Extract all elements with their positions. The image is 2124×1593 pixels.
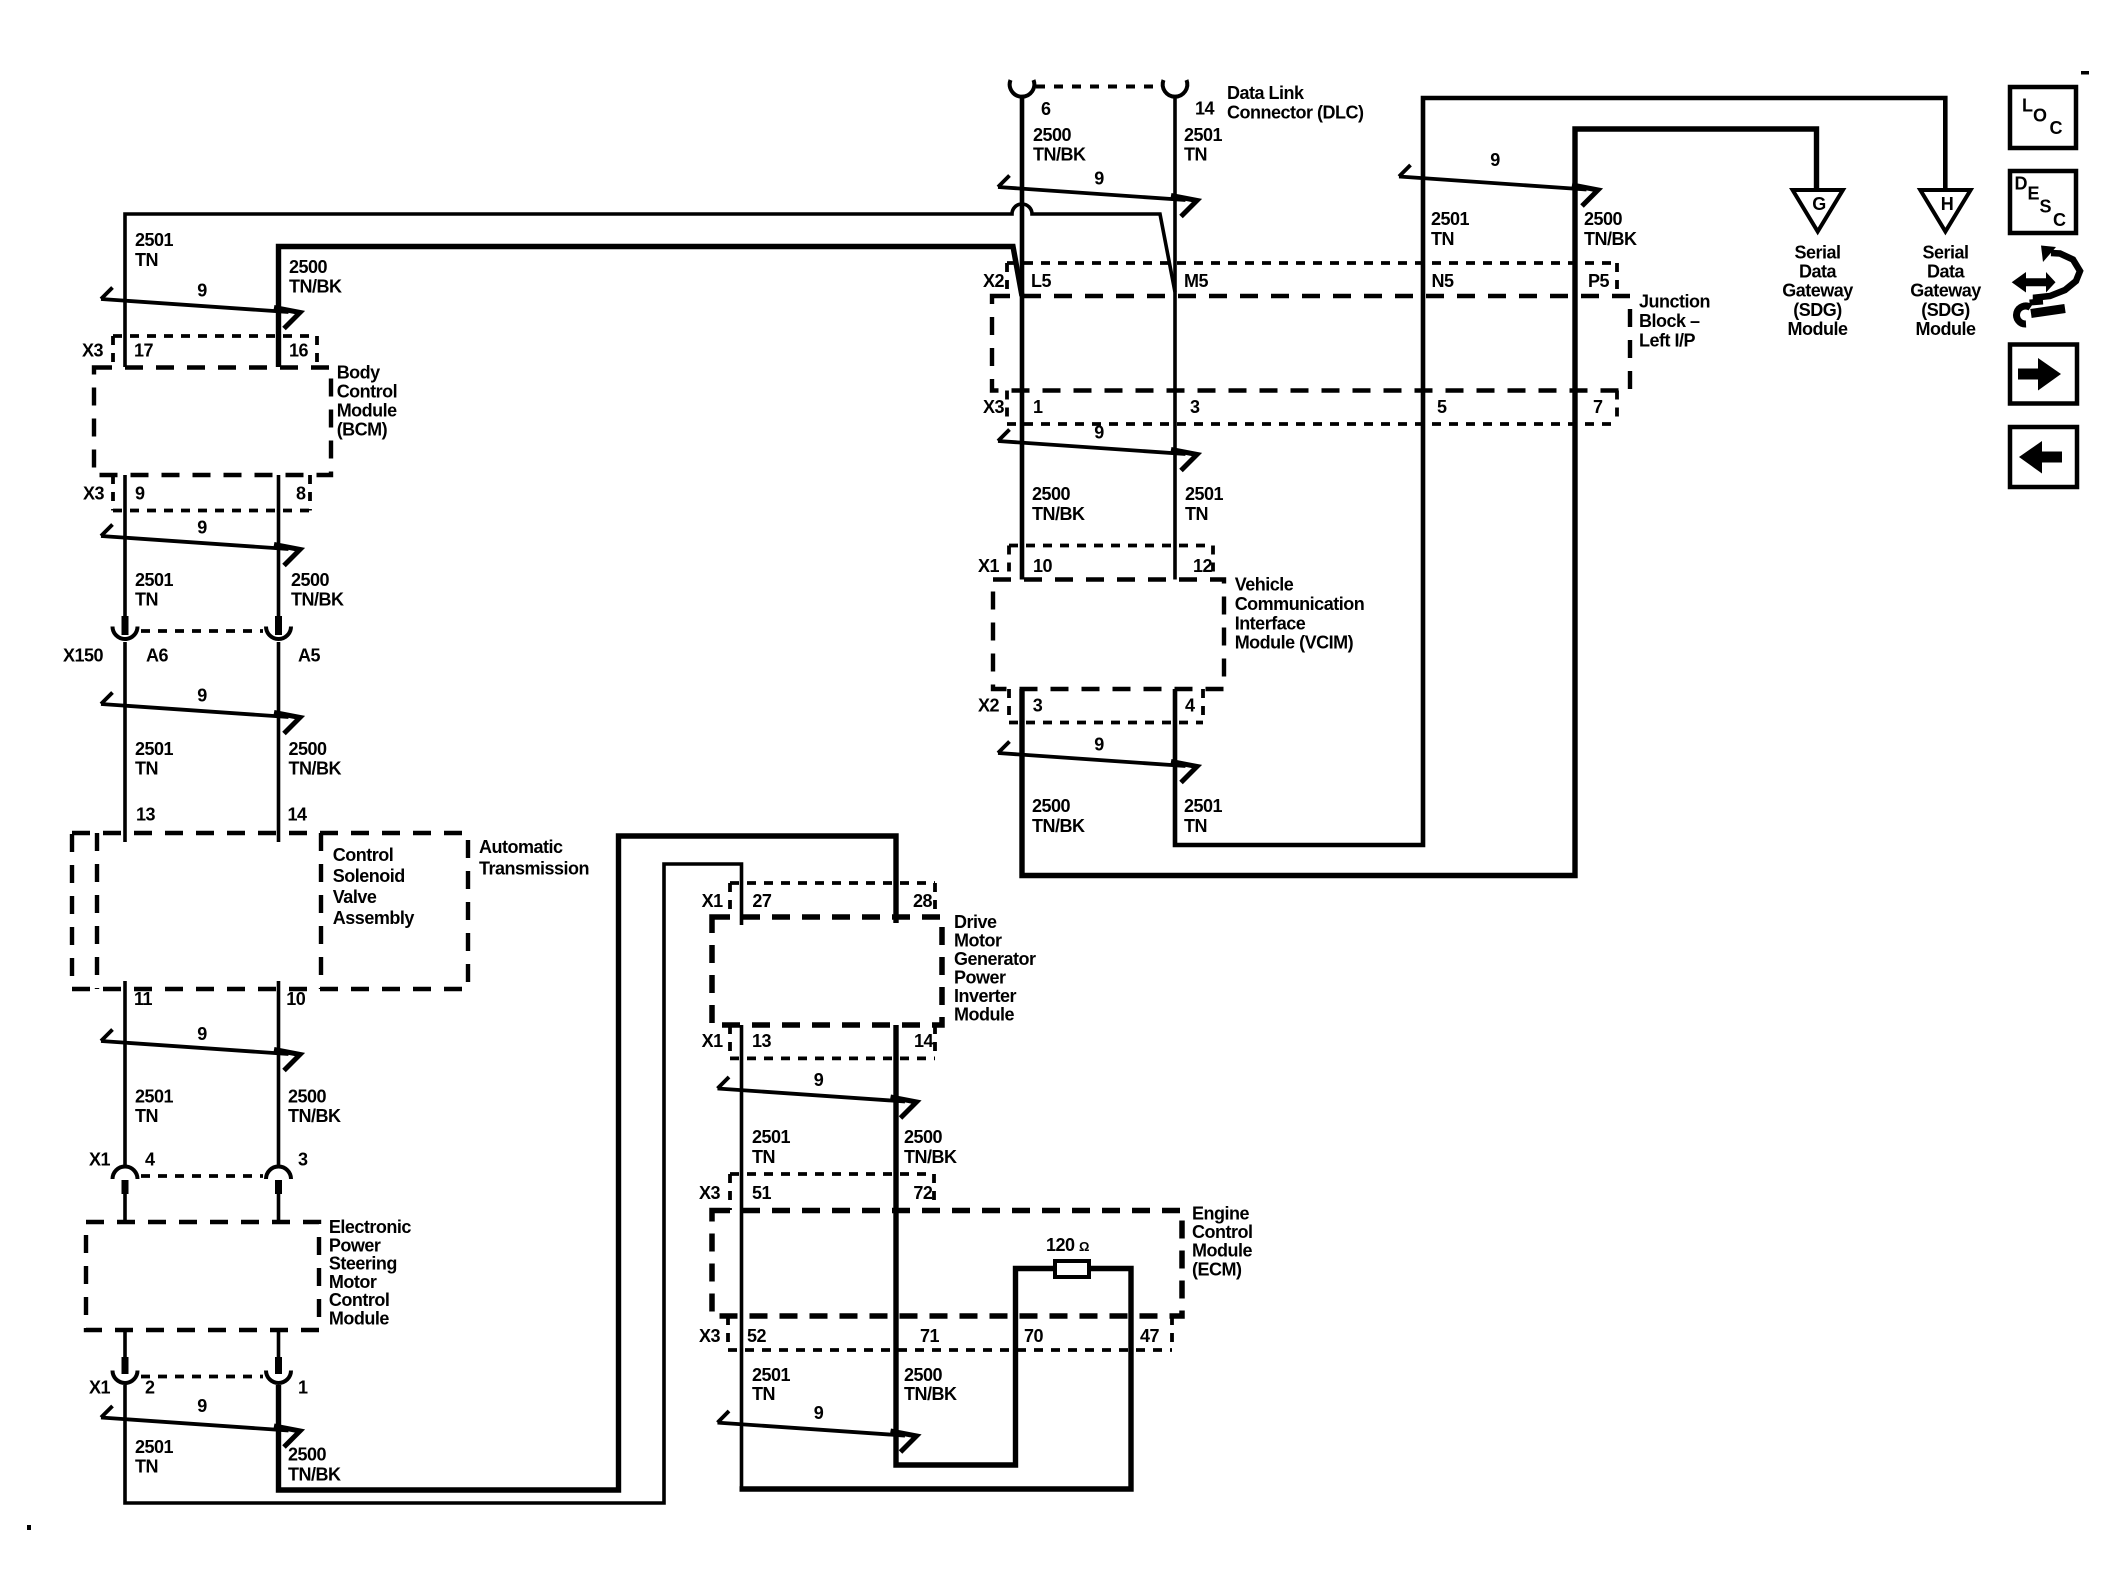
svg-text:TN: TN <box>1431 229 1454 249</box>
wire VCIM X2-3 up junction P5 to SDG G triangle (2500 TN/BK) <box>1022 129 1817 876</box>
svg-text:X1: X1 <box>702 1031 724 1051</box>
svg-text:Valve: Valve <box>333 887 377 907</box>
connector Drive Motor X1 row pins 13/14 <box>730 1025 935 1058</box>
svg-text:2501: 2501 <box>135 230 174 250</box>
wire X150 A5 to solenoid pin 14 <box>277 642 281 842</box>
wire BCM X3-8 to X150 A5 <box>277 475 281 616</box>
icon wiring repair (double arrow, curved arrow, wrench) <box>2012 246 2080 325</box>
svg-text:14: 14 <box>914 1031 934 1051</box>
svg-text:H: H <box>1941 194 1954 214</box>
svg-text:TN/BK: TN/BK <box>1033 145 1086 165</box>
svg-text:(SDG): (SDG) <box>1793 300 1842 320</box>
svg-text:9: 9 <box>197 1024 207 1044</box>
svg-text:Interface: Interface <box>1235 614 1306 634</box>
svg-text:(BCM): (BCM) <box>337 420 388 440</box>
svg-text:TN: TN <box>752 1384 775 1404</box>
svg-text:2500: 2500 <box>1033 125 1072 145</box>
svg-text:TN: TN <box>1184 145 1207 165</box>
svg-text:2501: 2501 <box>1184 125 1223 145</box>
svg-text:Junction: Junction <box>1639 292 1710 312</box>
svg-text:Module: Module <box>1788 319 1848 339</box>
connector DLC cup pin 14 <box>1163 80 1188 97</box>
svg-text:4: 4 <box>1185 696 1195 716</box>
svg-text:TN/BK: TN/BK <box>288 1465 341 1485</box>
svg-text:X1: X1 <box>89 1150 111 1170</box>
svg-text:6: 6 <box>1041 99 1051 119</box>
svg-text:2501: 2501 <box>135 1437 174 1457</box>
svg-text:Generator: Generator <box>954 949 1036 969</box>
svg-text:28: 28 <box>913 891 933 911</box>
svg-text:2500: 2500 <box>291 570 330 590</box>
connector DLC dashed line <box>1036 85 1163 89</box>
svg-text:Control: Control <box>333 845 393 865</box>
connector junction block X3 row 1/3/5/7 <box>1007 391 1617 425</box>
svg-text:TN/BK: TN/BK <box>288 1106 341 1126</box>
SDG triangle H <box>1920 190 1970 232</box>
svg-text:TN/BK: TN/BK <box>289 277 342 297</box>
twisted pair symbol 9 below drive module <box>718 1070 917 1118</box>
svg-text:TN/BK: TN/BK <box>289 759 342 779</box>
connector junction block X2 row L5/M5/N5/P5 <box>1007 263 1617 296</box>
svg-text:Inverter: Inverter <box>954 986 1017 1006</box>
svg-text:Communication: Communication <box>1235 594 1365 614</box>
connector BCM X3 row pins 17/16 <box>113 336 317 367</box>
svg-text:O: O <box>2033 106 2047 126</box>
wire VCIM X2-4 up junction N5 to SDG H triangle (2501 TN) <box>1175 98 1945 845</box>
svg-text:51: 51 <box>752 1183 772 1203</box>
svg-text:2500: 2500 <box>289 739 328 759</box>
svg-text:13: 13 <box>752 1031 772 1051</box>
svg-text:9: 9 <box>197 686 207 706</box>
svg-text:9: 9 <box>1094 169 1104 189</box>
connector Drive Motor X3 row pins 51/72 <box>730 1174 934 1210</box>
svg-text:70: 70 <box>1024 1326 1044 1346</box>
module box Engine Control Module (ECM) <box>712 1211 1182 1317</box>
module box Junction Block Left I/P <box>992 296 1630 391</box>
svg-text:11: 11 <box>134 989 153 1009</box>
svg-text:Module: Module <box>329 1309 389 1329</box>
svg-text:G: G <box>1812 194 1826 214</box>
svg-text:L: L <box>2022 96 2033 116</box>
svg-text:Power: Power <box>954 968 1006 988</box>
wire X150 A6 to solenoid pin 13 <box>123 642 127 842</box>
wire EPS X1-4 pin into module <box>123 1193 127 1222</box>
svg-text:Assembly: Assembly <box>333 908 415 928</box>
svg-text:8: 8 <box>296 484 306 504</box>
svg-text:Transmission: Transmission <box>479 859 589 879</box>
svg-text:TN/BK: TN/BK <box>1584 229 1637 249</box>
module box Control Solenoid Valve Assembly (inner dashed edges) <box>97 833 321 989</box>
svg-text:17: 17 <box>134 341 154 361</box>
svg-text:Connector (DLC): Connector (DLC) <box>1227 103 1364 123</box>
icon DESC box <box>2010 171 2076 233</box>
svg-text:2501: 2501 <box>752 1127 791 1147</box>
twisted pair symbol 9 above VCIM <box>998 423 1197 471</box>
svg-text:A6: A6 <box>146 646 168 666</box>
svg-text:X3: X3 <box>699 1183 721 1203</box>
twisted pair symbol 9 below VCIM <box>998 735 1197 783</box>
svg-text:9: 9 <box>1094 423 1104 443</box>
svg-text:A5: A5 <box>298 646 320 666</box>
icon back arrow box <box>2010 427 2077 487</box>
wire EPS module down to X1-2 connector <box>123 1330 127 1358</box>
svg-text:14: 14 <box>288 805 308 825</box>
connector EPS X1 pin 3 (dome and pin) <box>266 1167 291 1180</box>
twisted pair symbol 9 below BCM X3 9/8 <box>101 518 300 566</box>
svg-text:TN: TN <box>1184 816 1207 836</box>
svg-text:14: 14 <box>1195 99 1215 119</box>
module box Electronic Power Steering Motor Control Module <box>86 1222 319 1330</box>
svg-text:(SDG): (SDG) <box>1921 300 1970 320</box>
twisted pair symbol 9 below DLC <box>998 169 1197 217</box>
svg-text:71: 71 <box>920 1326 940 1346</box>
svg-text:TN: TN <box>135 1106 158 1126</box>
connector ECM X3 row pins 52/71/70/47 <box>728 1316 1172 1350</box>
wire DLC pin 6 down to VCIM X1-10 (2500 TN/BK, L5 column) <box>1020 96 1025 580</box>
wire EPS X1-3 pin into module <box>277 1193 281 1222</box>
twisted pair symbol 9 below EPS <box>101 1396 300 1447</box>
svg-text:C: C <box>2053 210 2066 230</box>
svg-text:1: 1 <box>298 1378 308 1398</box>
svg-text:9: 9 <box>197 281 207 301</box>
svg-text:Engine: Engine <box>1192 1203 1249 1223</box>
svg-text:27: 27 <box>752 891 772 911</box>
svg-text:TN: TN <box>135 250 158 270</box>
svg-text:TN/BK: TN/BK <box>904 1147 957 1167</box>
svg-text:L5: L5 <box>1031 271 1051 291</box>
svg-text:2500: 2500 <box>1032 796 1071 816</box>
svg-text:9: 9 <box>1094 735 1104 755</box>
wire 2500 TN/BK from BCM X3-16 to junction L5 <box>279 247 1023 368</box>
twisted pair symbol 9 below ECM <box>718 1403 917 1452</box>
svg-text:Module: Module <box>337 401 397 421</box>
svg-text:47: 47 <box>1140 1326 1160 1346</box>
svg-text:TN/BK: TN/BK <box>904 1384 957 1404</box>
svg-text:10: 10 <box>286 989 306 1009</box>
svg-text:3: 3 <box>1190 397 1200 417</box>
svg-text:12: 12 <box>1193 556 1213 576</box>
svg-text:D: D <box>2015 174 2028 194</box>
svg-text:16: 16 <box>289 341 309 361</box>
svg-text:Block –: Block – <box>1639 311 1700 331</box>
svg-text:Serial: Serial <box>1922 242 1968 262</box>
svg-text:1: 1 <box>1033 397 1043 417</box>
svg-text:TN/BK: TN/BK <box>1032 504 1085 524</box>
wire 2501 TN from Drive Motor X3-51 through ECM X3-52 <box>740 1025 744 1487</box>
twisted pair symbol 9 below solenoid <box>101 1024 300 1071</box>
wire 2500 TN/BK from Drive Motor X3-72 through ECM X3-71, loop to pin 70 <box>896 1025 1055 1465</box>
connector BCM X3 row pins 9/8 <box>113 475 310 511</box>
connector EPS X1 bottom dotted line <box>141 1375 263 1379</box>
svg-text:Power: Power <box>329 1235 381 1255</box>
svg-text:X3: X3 <box>699 1326 721 1346</box>
svg-text:X3: X3 <box>82 341 104 361</box>
svg-text:Control: Control <box>329 1290 389 1310</box>
svg-text:Electronic: Electronic <box>329 1217 412 1237</box>
wire 2501 TN from EPS X1-2 to Drive Motor X1-27 <box>125 864 742 1503</box>
svg-text:2501: 2501 <box>135 739 174 759</box>
module box Automatic Transmission (outer dashed box) <box>72 833 468 989</box>
wire 2500 TN/BK from EPS X1-1 to Drive Motor X1-28 <box>279 836 897 1490</box>
svg-text:TN: TN <box>135 759 158 779</box>
svg-text:Gateway: Gateway <box>1782 281 1853 301</box>
svg-text:2: 2 <box>145 1378 155 1398</box>
connector VCIM X2 row pins 3/4 <box>1009 689 1203 723</box>
module box Body Control Module (BCM) <box>94 368 331 476</box>
wire 2501 TN from BCM X3-17 to junction M5 (with hop over L5 wire) <box>125 204 1175 367</box>
resistor 120 ohm inside ECM <box>1055 1261 1089 1277</box>
svg-text:Automatic: Automatic <box>479 837 563 857</box>
svg-text:X1: X1 <box>702 891 724 911</box>
svg-text:Module: Module <box>1192 1241 1252 1261</box>
svg-text:X3: X3 <box>983 397 1005 417</box>
connector EPS X1 pin 4 (dome and pin) <box>113 1167 138 1180</box>
tiny dot bottom left <box>27 1525 31 1530</box>
svg-text:TN: TN <box>1185 504 1208 524</box>
connector Drive Motor X1 row pins 27/28 <box>730 883 935 917</box>
svg-text:52: 52 <box>747 1326 767 1346</box>
svg-text:Control: Control <box>1192 1222 1252 1242</box>
svg-text:N5: N5 <box>1432 271 1454 291</box>
svg-text:X3: X3 <box>83 484 105 504</box>
module box Drive Motor Generator Power Inverter Module <box>712 917 942 1025</box>
SDG triangle G <box>1793 190 1843 232</box>
svg-text:Body: Body <box>337 363 380 383</box>
svg-text:2501: 2501 <box>1185 484 1224 504</box>
icon LOC box <box>2010 87 2076 148</box>
connector EPS X1 pin 1 (pin and cup) <box>275 1357 282 1374</box>
svg-text:(ECM): (ECM) <box>1192 1259 1242 1279</box>
svg-text:2500: 2500 <box>288 1086 327 1106</box>
wire EPS module down to X1-1 connector <box>277 1330 281 1358</box>
svg-text:2501: 2501 <box>1184 796 1223 816</box>
svg-text:TN: TN <box>752 1147 775 1167</box>
svg-text:Vehicle: Vehicle <box>1235 575 1294 595</box>
svg-text:2501: 2501 <box>135 1086 174 1106</box>
svg-text:Motor: Motor <box>329 1272 377 1292</box>
svg-text:4: 4 <box>145 1150 155 1170</box>
svg-text:C: C <box>2050 118 2063 138</box>
svg-text:Module (VCIM): Module (VCIM) <box>1235 633 1354 653</box>
svg-text:X2: X2 <box>983 271 1005 291</box>
svg-text:2500: 2500 <box>288 1445 327 1465</box>
svg-text:10: 10 <box>1033 556 1053 576</box>
twisted pair symbol 9 at junction N5/P5 <box>1399 150 1598 206</box>
twisted pair symbol 9 below X150 <box>101 686 300 734</box>
svg-text:Motor: Motor <box>954 931 1002 951</box>
svg-text:M5: M5 <box>1184 271 1208 291</box>
svg-text:X1: X1 <box>978 556 1000 576</box>
svg-text:2500: 2500 <box>1032 484 1071 504</box>
svg-text:2501: 2501 <box>135 570 174 590</box>
svg-text:TN: TN <box>135 590 158 610</box>
svg-text:TN: TN <box>135 1457 158 1477</box>
svg-text:2500: 2500 <box>904 1127 943 1147</box>
svg-text:5: 5 <box>1437 397 1447 417</box>
svg-text:Gateway: Gateway <box>1910 281 1981 301</box>
svg-text:X2: X2 <box>978 696 1000 716</box>
module box Vehicle Communication Interface Module (VCIM) <box>993 580 1224 690</box>
svg-text:9: 9 <box>1490 150 1500 170</box>
wire solenoid pin 10 to EPS X1-3 <box>277 981 281 1165</box>
svg-text:Steering: Steering <box>329 1254 397 1274</box>
svg-text:Control: Control <box>337 382 397 402</box>
wire solenoid pin 11 to EPS X1-4 <box>123 981 127 1165</box>
svg-text:9: 9 <box>814 1403 824 1423</box>
svg-text:72: 72 <box>913 1183 933 1203</box>
connector EPS X1 top dotted line <box>141 1174 263 1178</box>
svg-text:7: 7 <box>1593 397 1603 417</box>
svg-text:TN/BK: TN/BK <box>291 590 344 610</box>
svg-text:Drive: Drive <box>954 912 997 932</box>
twisted pair symbol 9 at BCM top <box>101 281 300 329</box>
svg-text:E: E <box>2028 184 2040 204</box>
connector VCIM X1 row pins 10/12 <box>1009 546 1213 580</box>
svg-text:2500: 2500 <box>289 257 328 277</box>
connector DLC cup pin 6 <box>1010 80 1035 97</box>
svg-text:9: 9 <box>135 484 145 504</box>
svg-text:3: 3 <box>298 1150 308 1170</box>
svg-text:Data: Data <box>1927 262 1966 282</box>
tiny dash top right <box>2081 71 2089 75</box>
svg-text:Solenoid: Solenoid <box>333 866 405 886</box>
svg-text:Module: Module <box>954 1005 1014 1025</box>
svg-text:Module: Module <box>1916 319 1976 339</box>
svg-text:2500: 2500 <box>1584 209 1623 229</box>
svg-text:13: 13 <box>136 805 156 825</box>
svg-text:Left I/P: Left I/P <box>1639 331 1695 351</box>
wire BCM X3-9 to X150 A6 <box>123 475 127 616</box>
svg-text:9: 9 <box>197 518 207 538</box>
svg-text:P5: P5 <box>1588 271 1610 291</box>
wire ECM external loop pin 52 to pin 47 <box>740 1269 1132 1490</box>
connector X150 pin A6 (pin and cup) <box>122 616 129 635</box>
svg-text:S: S <box>2040 197 2052 217</box>
svg-text:X1: X1 <box>89 1378 111 1398</box>
connector X150 pin A5 (pin and cup) <box>275 616 282 635</box>
svg-text:2500: 2500 <box>904 1365 943 1385</box>
svg-text:X150: X150 <box>63 646 104 666</box>
svg-text:Data: Data <box>1799 262 1838 282</box>
svg-text:9: 9 <box>814 1070 824 1090</box>
icon forward arrow box <box>2010 345 2077 404</box>
svg-text:Data Link: Data Link <box>1227 83 1305 103</box>
svg-text:2501: 2501 <box>1431 209 1470 229</box>
svg-text:9: 9 <box>197 1396 207 1416</box>
wire DLC pin 14 down to VCIM X1-12 (2501 TN, M5 column) <box>1173 96 1177 580</box>
svg-text:3: 3 <box>1033 696 1043 716</box>
svg-text:2501: 2501 <box>752 1365 791 1385</box>
svg-text:Serial: Serial <box>1794 242 1840 262</box>
connector X150 dotted line <box>141 629 263 633</box>
connector EPS X1 pin 2 (pin and cup) <box>122 1357 129 1374</box>
svg-text:TN/BK: TN/BK <box>1032 816 1085 836</box>
